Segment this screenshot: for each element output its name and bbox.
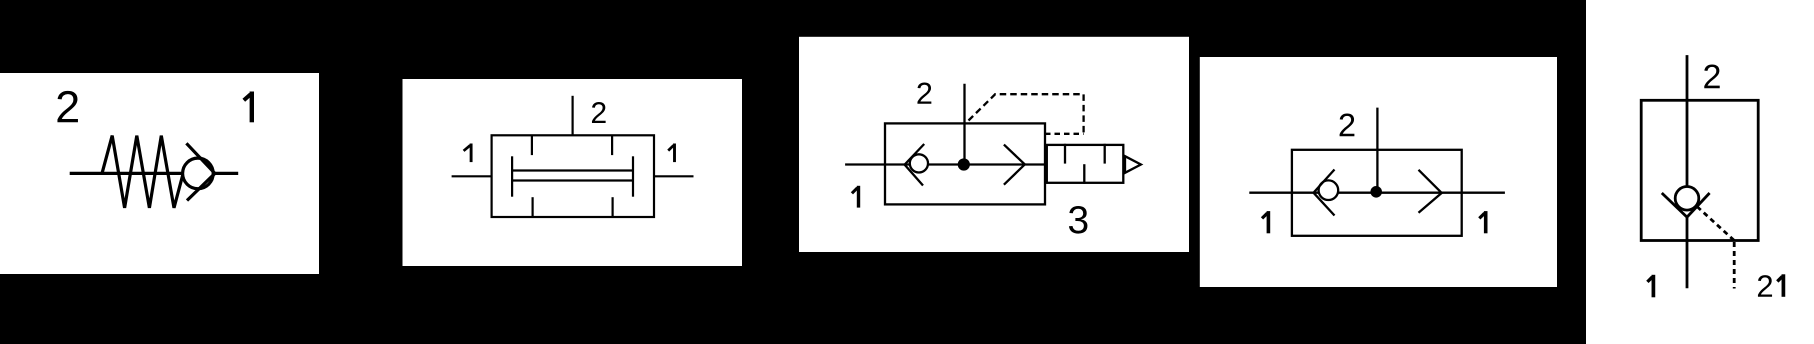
pilot dashed line	[969, 94, 1084, 134]
silencer tick 3	[1104, 144, 1106, 164]
wire: main horizontal line	[1249, 192, 1505, 194]
check valve circle	[910, 154, 928, 172]
pilot dashed diagonal	[1697, 207, 1734, 241]
bottom tick right	[611, 197, 613, 217]
flow arrow	[1004, 145, 1025, 185]
port label 1 right	[1479, 211, 1485, 233]
wire: left port 1 stub	[452, 175, 492, 177]
check valve seat	[1314, 170, 1335, 216]
panel 2 background	[403, 79, 743, 266]
port label 21	[1758, 275, 1772, 297]
wire: port 2 vertical upper	[1686, 55, 1689, 187]
valve body rectangle	[1292, 150, 1462, 236]
wire: port 1 vertical lower	[1686, 217, 1689, 289]
pilot dashed vertical	[1733, 242, 1736, 289]
panel 4 background	[1200, 57, 1557, 287]
port label 2	[1340, 114, 1355, 137]
top tick left	[531, 135, 533, 155]
piston right bar	[632, 156, 634, 196]
piston rod lower line	[512, 179, 633, 181]
check valve seat	[186, 143, 215, 200]
check valve seat V	[1662, 193, 1710, 217]
panel 5 background	[1586, 0, 1814, 344]
port label 2	[57, 91, 77, 122]
top tick right	[611, 135, 613, 155]
piston left bar	[511, 156, 513, 196]
port label 2	[592, 102, 606, 123]
spring	[102, 136, 183, 208]
piston rod upper line	[512, 169, 633, 171]
check valve poppet circle	[183, 158, 214, 189]
port label 3	[1069, 206, 1087, 234]
wire: port 1 stub and mid line	[845, 163, 1045, 165]
silencer tick 2	[1083, 164, 1085, 184]
pilot dashed return to body	[1045, 133, 1084, 135]
port label 1 right	[668, 144, 674, 163]
check valve seat	[905, 144, 925, 186]
port label 1 left	[464, 144, 472, 163]
check valve poppet circle	[1675, 187, 1699, 211]
panel 1 background	[0, 73, 319, 274]
port label 2	[1704, 64, 1719, 88]
silencer body	[1047, 145, 1124, 183]
wire: port 2 vertical line	[963, 84, 965, 165]
flow arrow	[1419, 170, 1442, 213]
port label 1 left	[1262, 211, 1268, 233]
wire: port 2 vertical line	[1376, 108, 1378, 193]
valve body rectangle	[492, 135, 654, 217]
port label 1	[852, 186, 859, 208]
port label 2	[917, 83, 931, 104]
junction dot	[1370, 186, 1382, 198]
wire: main horizontal line port 2 to poppet	[70, 172, 183, 175]
panel 3 background	[799, 37, 1189, 252]
silencer tick 1	[1064, 144, 1066, 164]
silencer outlet triangle	[1125, 156, 1141, 173]
wire: port 2 vertical line	[571, 96, 573, 136]
wire: right port 1 stub	[654, 175, 694, 177]
check valve circle	[1319, 180, 1339, 200]
junction dot	[958, 158, 970, 170]
bottom tick left	[531, 197, 533, 217]
valve body square	[1641, 100, 1758, 240]
valve body rectangle	[885, 123, 1045, 204]
port label 1	[1647, 275, 1653, 298]
wire: right stub after seat	[215, 172, 238, 175]
port label 1	[244, 92, 252, 123]
